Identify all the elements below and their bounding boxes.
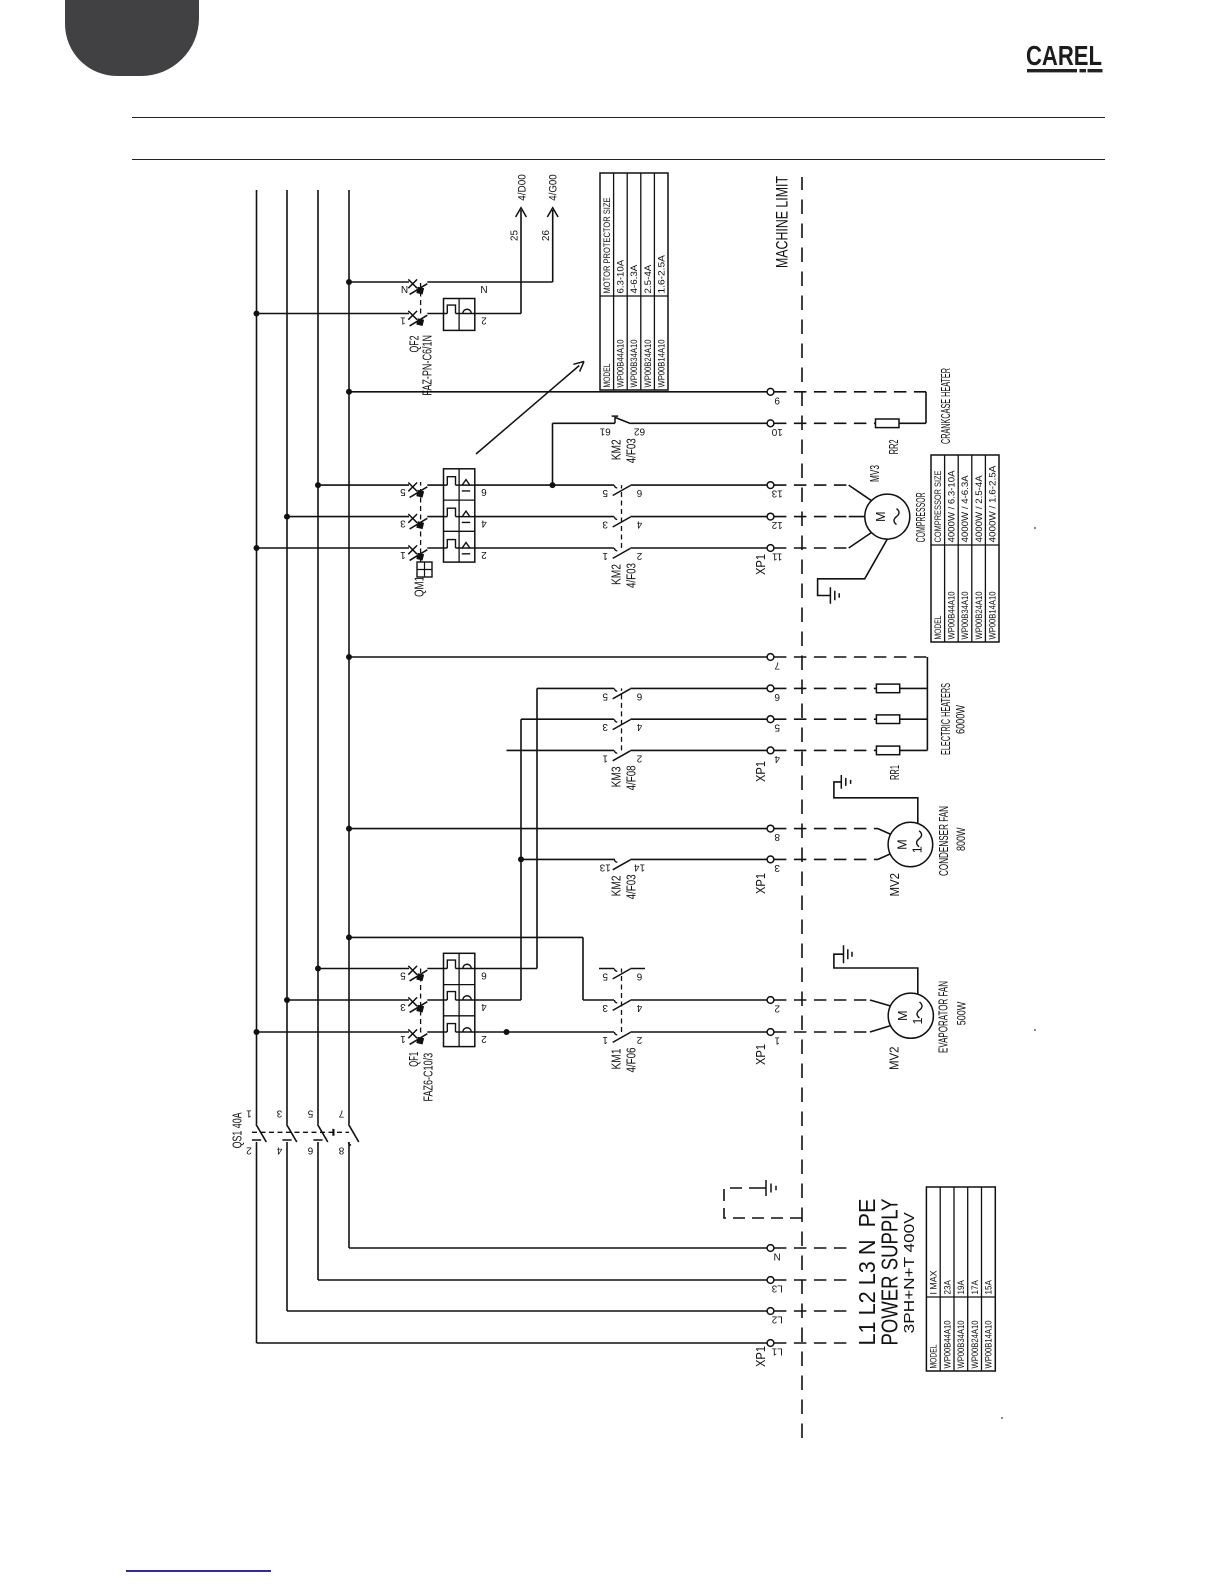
svg-text:M: M bbox=[874, 511, 888, 521]
svg-text:2: 2 bbox=[636, 550, 642, 561]
svg-text:4000W / 2.5-4A: 4000W / 2.5-4A bbox=[974, 475, 985, 543]
svg-text:2: 2 bbox=[481, 315, 487, 326]
svg-text:4/F03: 4/F03 bbox=[624, 874, 639, 899]
svg-text:7: 7 bbox=[774, 660, 780, 671]
svg-text:19A: 19A bbox=[956, 1280, 967, 1295]
svg-text:WP00B34A10: WP00B34A10 bbox=[956, 1321, 967, 1369]
svg-text:1: 1 bbox=[246, 1108, 252, 1119]
svg-text:23A: 23A bbox=[942, 1280, 953, 1295]
svg-text:WP00B14A10: WP00B14A10 bbox=[656, 340, 667, 388]
svg-text:XP1: XP1 bbox=[753, 761, 768, 782]
svg-text:4/F06: 4/F06 bbox=[624, 1048, 639, 1073]
svg-text:2.5-4A: 2.5-4A bbox=[643, 264, 654, 293]
svg-text:I MAX: I MAX bbox=[929, 1270, 940, 1295]
svg-text:3: 3 bbox=[276, 1108, 282, 1119]
svg-text:5: 5 bbox=[774, 722, 780, 733]
svg-text:3: 3 bbox=[602, 721, 608, 732]
svg-text:4: 4 bbox=[774, 753, 780, 764]
svg-text:CAREL: CAREL bbox=[1026, 40, 1102, 71]
svg-text:3: 3 bbox=[774, 862, 780, 873]
svg-text:4000W / 4-6.3A: 4000W / 4-6.3A bbox=[960, 475, 971, 543]
svg-text:MV2: MV2 bbox=[887, 1047, 902, 1071]
svg-text:1: 1 bbox=[602, 550, 608, 561]
svg-text:N: N bbox=[774, 1251, 781, 1262]
svg-text:9: 9 bbox=[774, 394, 780, 405]
svg-text:XP1: XP1 bbox=[753, 873, 768, 894]
svg-text:5: 5 bbox=[602, 487, 608, 498]
svg-text:4000W / 1.6-2.5A: 4000W / 1.6-2.5A bbox=[987, 465, 998, 542]
svg-text:KM3: KM3 bbox=[609, 766, 624, 787]
svg-text:WP00B14A10: WP00B14A10 bbox=[987, 592, 998, 640]
svg-text:FAZ6-C10/3: FAZ6-C10/3 bbox=[420, 1053, 435, 1102]
svg-text:MV3: MV3 bbox=[867, 465, 882, 482]
svg-text:5: 5 bbox=[400, 970, 406, 981]
svg-text:M: M bbox=[896, 1010, 910, 1020]
svg-text:4000W / 6.3-10A: 4000W / 6.3-10A bbox=[947, 470, 958, 543]
svg-text:4-6.3A: 4-6.3A bbox=[629, 264, 640, 293]
svg-text:XP1: XP1 bbox=[753, 1044, 768, 1065]
svg-text:1: 1 bbox=[400, 315, 406, 326]
svg-text:FAZ-PN-C6/1N: FAZ-PN-C6/1N bbox=[419, 335, 434, 396]
svg-text:3: 3 bbox=[400, 518, 406, 529]
svg-text:WP00B44A10: WP00B44A10 bbox=[942, 1321, 953, 1369]
svg-text:7: 7 bbox=[338, 1108, 344, 1119]
svg-text:QM1: QM1 bbox=[412, 576, 427, 597]
svg-text:3: 3 bbox=[602, 519, 608, 530]
svg-text:WP00B24A10: WP00B24A10 bbox=[974, 592, 985, 640]
svg-text:1.6-2.5A: 1.6-2.5A bbox=[656, 254, 667, 293]
svg-text:KM1: KM1 bbox=[609, 1049, 624, 1070]
svg-text:62: 62 bbox=[634, 425, 646, 436]
svg-text:QF1: QF1 bbox=[406, 1052, 421, 1067]
svg-text:6: 6 bbox=[307, 1145, 313, 1156]
svg-text:14: 14 bbox=[634, 861, 646, 872]
svg-text:KM2: KM2 bbox=[609, 564, 624, 585]
svg-text:WP00B24A10: WP00B24A10 bbox=[970, 1321, 981, 1369]
svg-text:6: 6 bbox=[481, 486, 487, 497]
svg-text:4: 4 bbox=[481, 1001, 487, 1012]
svg-text:QS1 40A: QS1 40A bbox=[230, 1112, 245, 1148]
svg-text:500W: 500W bbox=[957, 1002, 969, 1026]
svg-text:L3: L3 bbox=[771, 1283, 783, 1294]
svg-text:WP00B44A10: WP00B44A10 bbox=[947, 592, 958, 640]
svg-text:8: 8 bbox=[338, 1145, 344, 1156]
svg-text:6.3-10A: 6.3-10A bbox=[616, 259, 627, 293]
svg-text:4: 4 bbox=[276, 1145, 282, 1156]
svg-text:25: 25 bbox=[509, 230, 521, 241]
svg-text:MODEL: MODEL bbox=[929, 1345, 940, 1369]
svg-text:1: 1 bbox=[911, 1017, 925, 1024]
svg-text:1: 1 bbox=[774, 1035, 780, 1046]
svg-text:5: 5 bbox=[602, 690, 608, 701]
svg-text:MV2: MV2 bbox=[887, 873, 902, 897]
svg-text:L2: L2 bbox=[771, 1314, 783, 1325]
svg-text:1: 1 bbox=[602, 1034, 608, 1045]
svg-text:RR1: RR1 bbox=[887, 765, 902, 780]
svg-text:13: 13 bbox=[599, 861, 611, 872]
svg-text:26: 26 bbox=[540, 230, 552, 241]
svg-text:8: 8 bbox=[774, 831, 780, 842]
svg-text:4/F03: 4/F03 bbox=[624, 438, 639, 463]
svg-text:4: 4 bbox=[481, 518, 487, 529]
svg-text:6: 6 bbox=[774, 691, 780, 702]
svg-text:M: M bbox=[896, 839, 910, 849]
svg-text:17A: 17A bbox=[970, 1280, 981, 1295]
svg-text:3PH+N+T 400V: 3PH+N+T 400V bbox=[901, 1212, 918, 1333]
svg-text:12: 12 bbox=[771, 519, 783, 530]
svg-text:2: 2 bbox=[636, 1034, 642, 1045]
svg-text:4/F08: 4/F08 bbox=[624, 765, 639, 790]
svg-text:2: 2 bbox=[246, 1145, 252, 1156]
svg-text:4/G00: 4/G00 bbox=[548, 174, 560, 200]
svg-text:1: 1 bbox=[602, 752, 608, 763]
svg-text:3: 3 bbox=[602, 1002, 608, 1013]
svg-text:XP1: XP1 bbox=[753, 554, 768, 575]
svg-text:11: 11 bbox=[772, 551, 783, 562]
svg-text:2: 2 bbox=[774, 1003, 780, 1014]
svg-text:WP00B44A10: WP00B44A10 bbox=[616, 340, 627, 388]
svg-text:WP00B14A10: WP00B14A10 bbox=[984, 1321, 995, 1369]
svg-text:5: 5 bbox=[400, 486, 406, 497]
svg-text:6: 6 bbox=[481, 970, 487, 981]
svg-text:5: 5 bbox=[602, 971, 608, 982]
svg-text:MACHINE LIMIT: MACHINE LIMIT bbox=[773, 176, 792, 268]
svg-text:ELECTRIC HEATERS: ELECTRIC HEATERS bbox=[939, 683, 953, 755]
svg-text:4: 4 bbox=[636, 1002, 642, 1013]
svg-text:MODEL: MODEL bbox=[602, 364, 613, 388]
svg-text:6: 6 bbox=[636, 690, 642, 701]
svg-text:EVAPORATOR FAN: EVAPORATOR FAN bbox=[937, 981, 951, 1053]
svg-text:1: 1 bbox=[400, 1033, 406, 1044]
svg-text:N: N bbox=[401, 283, 408, 294]
svg-text:6000W: 6000W bbox=[956, 705, 968, 734]
svg-text:2: 2 bbox=[481, 549, 487, 560]
svg-text:4: 4 bbox=[636, 721, 642, 732]
svg-text:N: N bbox=[480, 283, 487, 294]
svg-text:6: 6 bbox=[636, 487, 642, 498]
svg-text:KM2: KM2 bbox=[609, 439, 624, 460]
svg-text:61: 61 bbox=[599, 425, 611, 436]
svg-text:2: 2 bbox=[636, 752, 642, 763]
svg-text:1: 1 bbox=[400, 549, 406, 560]
svg-text:4: 4 bbox=[636, 519, 642, 530]
svg-text:3: 3 bbox=[400, 1001, 406, 1012]
svg-text:2: 2 bbox=[481, 1033, 487, 1044]
svg-text:KM2: KM2 bbox=[609, 875, 624, 896]
svg-text:XP1: XP1 bbox=[753, 1346, 768, 1367]
svg-text:1: 1 bbox=[911, 846, 925, 853]
svg-text:CONDENSER FAN: CONDENSER FAN bbox=[937, 806, 951, 876]
svg-text:6: 6 bbox=[636, 971, 642, 982]
svg-text:WP00B34A10: WP00B34A10 bbox=[960, 592, 971, 640]
svg-text:MOTOR PROTECTOR SIZE: MOTOR PROTECTOR SIZE bbox=[602, 198, 613, 294]
svg-text:13: 13 bbox=[771, 488, 783, 499]
svg-text:10: 10 bbox=[771, 426, 783, 437]
svg-text:WP00B34A10: WP00B34A10 bbox=[629, 340, 640, 388]
svg-text:800W: 800W bbox=[956, 827, 968, 851]
svg-text:POWER SUPPLY: POWER SUPPLY bbox=[877, 1199, 903, 1346]
svg-text:4/F03: 4/F03 bbox=[624, 563, 639, 588]
svg-text:WP00B24A10: WP00B24A10 bbox=[643, 340, 654, 388]
svg-text:CRANKCASE HEATER: CRANKCASE HEATER bbox=[939, 368, 953, 444]
svg-text:4/D00: 4/D00 bbox=[516, 174, 528, 200]
svg-text:MODEL: MODEL bbox=[933, 616, 944, 640]
svg-text:L1: L1 bbox=[771, 1346, 783, 1357]
svg-text:COMPRESSOR SIZE: COMPRESSOR SIZE bbox=[933, 471, 944, 543]
svg-text:5: 5 bbox=[307, 1108, 313, 1119]
svg-text:RR2: RR2 bbox=[886, 439, 901, 454]
svg-text:15A: 15A bbox=[984, 1280, 995, 1295]
svg-text:COMPRESSOR: COMPRESSOR bbox=[914, 492, 928, 542]
